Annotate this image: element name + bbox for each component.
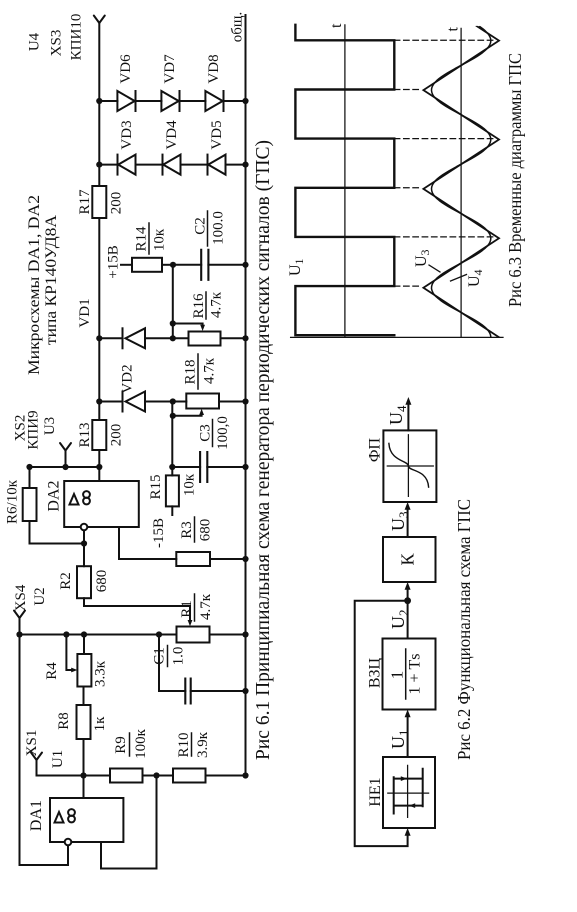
svg-text:Рис 6.1 Принципиальная схема г: Рис 6.1 Принципиальная схема генератора … xyxy=(253,140,274,760)
svg-text:R1: R1 xyxy=(179,600,195,618)
svg-text:VD7: VD7 xyxy=(162,54,178,84)
diode VD5 xyxy=(208,120,226,174)
node VD1 branch top junction xyxy=(96,335,102,341)
wire U4 output arrow xyxy=(407,402,409,431)
svg-text:C1: C1 xyxy=(152,647,168,665)
node R6 riser junction xyxy=(81,540,87,546)
resistor R14 xyxy=(132,223,168,272)
diode VD1 xyxy=(77,298,145,348)
op-amp DA2 inverting input circle xyxy=(81,524,88,531)
wire R8 to R4 xyxy=(83,687,85,706)
svg-text:R4: R4 xyxy=(44,662,60,680)
svg-text:U3: U3 xyxy=(388,512,411,532)
wire R14 to bus xyxy=(162,264,173,266)
svg-text:ФП: ФП xyxy=(367,437,384,462)
node VD6 branch top junction xyxy=(96,98,102,104)
node DA2 output junction xyxy=(96,464,102,470)
node VD3 branch top junction xyxy=(96,161,102,167)
node VD5 rail junction xyxy=(242,161,248,167)
resistor R3 xyxy=(176,517,213,566)
capacitor C3 xyxy=(172,416,245,482)
axis t U1 plot xyxy=(344,25,346,338)
resistor R6 xyxy=(5,479,37,524)
svg-text:XS1: XS1 xyxy=(24,730,40,757)
svg-text:R3: R3 xyxy=(179,521,195,539)
resistor R16 potentiometer xyxy=(189,291,225,345)
svg-text:VD8: VD8 xyxy=(206,54,222,83)
resistor R1 potentiometer xyxy=(177,593,215,642)
wire R9 top xyxy=(84,775,111,777)
svg-text:VD4: VD4 xyxy=(164,120,180,150)
svg-text:VD6: VD6 xyxy=(118,54,134,84)
hysteresis glyph axes xyxy=(388,765,429,817)
node R4 right end junction xyxy=(81,631,87,637)
resistor R13 xyxy=(77,420,125,450)
wire R15 supply stub xyxy=(171,506,173,515)
diode VD2 xyxy=(120,364,146,411)
wire R1 wiper to R2 xyxy=(84,598,190,622)
svg-text:10к: 10к xyxy=(182,473,198,496)
wire bias bus left segment xyxy=(171,402,173,476)
svg-text:R16: R16 xyxy=(191,293,207,319)
svg-text:4.7к: 4.7к xyxy=(202,357,218,384)
hysteresis glyph loop xyxy=(394,769,423,814)
leader U3 xyxy=(429,265,440,272)
arrow into ВЗЦ xyxy=(405,710,411,718)
svg-text:200: 200 xyxy=(109,424,125,447)
leader U4 xyxy=(451,275,467,282)
node R9 R10 divider junction xyxy=(153,772,159,778)
svg-text:R15: R15 xyxy=(148,474,164,499)
resistor R10 xyxy=(173,731,211,782)
svg-text:U4: U4 xyxy=(27,32,43,51)
node R10 rail junction xyxy=(242,772,248,778)
svg-text:VD1: VD1 xyxy=(77,298,93,327)
svg-text:R13: R13 xyxy=(77,422,93,447)
wire U3 arrow xyxy=(407,507,409,538)
svg-text:U2: U2 xyxy=(32,587,48,605)
svg-text:Микросхемы DA1, DA2: Микросхемы DA1, DA2 xyxy=(26,195,43,375)
wire DA2 output pin xyxy=(98,467,100,481)
svg-text:VD3: VD3 xyxy=(119,120,135,149)
connector XS3 xyxy=(94,16,105,24)
arrow feedback into НЕ1 xyxy=(405,828,411,836)
svg-text:R2: R2 xyxy=(58,572,74,590)
svg-text:100к: 100к xyxy=(133,728,149,759)
diode VD3 xyxy=(118,120,136,174)
node R4 wiper junction xyxy=(63,631,69,637)
wire DA1 output to R8 xyxy=(83,739,85,798)
svg-text:200: 200 xyxy=(109,192,125,215)
wire VD1 branch xyxy=(99,337,245,339)
svg-text:C3: C3 xyxy=(198,424,214,442)
svg-text:R17: R17 xyxy=(77,189,93,215)
arrow hysteresis up xyxy=(409,803,415,808)
function shaper glyph axes xyxy=(387,435,433,497)
diode VD6 xyxy=(117,54,135,111)
dashed line edge 2 xyxy=(394,89,421,91)
block ФП xyxy=(383,430,436,502)
node U2 junction xyxy=(16,631,22,637)
axis t U3 plot xyxy=(460,28,462,337)
svg-text:3.9к: 3.9к xyxy=(195,731,211,758)
svg-text:К: К xyxy=(398,553,418,566)
wire R10 bottom to common rail xyxy=(206,775,246,777)
svg-text:U1: U1 xyxy=(50,750,66,768)
wire R6 to XS2 node xyxy=(29,467,31,488)
wire R6 feedback riser xyxy=(30,521,85,544)
resistor R9 xyxy=(110,728,149,782)
node C3 rail junction xyxy=(242,464,248,470)
wire main U2 vertical bus xyxy=(20,634,177,636)
svg-text:4.7к: 4.7к xyxy=(198,593,214,620)
svg-text:R10: R10 xyxy=(176,732,192,757)
dashed line edge 4 xyxy=(394,187,421,189)
wire R2 to DA2 inverting input xyxy=(83,531,85,567)
block НЕ1 xyxy=(383,757,435,828)
node R16 wiper tap junction xyxy=(170,320,176,326)
node VD2 branch top junction xyxy=(96,398,102,404)
node R3 rail junction xyxy=(242,556,248,562)
dashed line edge 6 xyxy=(394,285,421,287)
node R16 rail junction xyxy=(242,335,248,341)
svg-text:КПИ9: КПИ9 xyxy=(26,410,42,449)
arrow into ФП xyxy=(405,502,411,510)
svg-text:R8: R8 xyxy=(56,712,72,730)
node bus R14 junction xyxy=(170,262,176,268)
svg-text:1: 1 xyxy=(388,671,407,680)
wire top rail middle section xyxy=(98,218,100,420)
svg-text:КПИ10: КПИ10 xyxy=(69,14,85,61)
node VD8 rail junction xyxy=(242,98,248,104)
resistor R2 xyxy=(58,566,110,598)
svg-text:t: t xyxy=(445,27,462,32)
arrow R4 wiper head xyxy=(71,668,77,673)
svg-text:VD2: VD2 xyxy=(120,364,136,393)
svg-text:R6/10к: R6/10к xyxy=(5,479,21,524)
wire XS1 stub xyxy=(37,760,84,776)
svg-text:3.3к: 3.3к xyxy=(93,660,109,687)
svg-text:ВЗЦ: ВЗЦ xyxy=(367,657,384,688)
svg-text:U1: U1 xyxy=(287,258,306,276)
wire feedback loop xyxy=(355,601,408,846)
wire U2 line from DA1 inverting input to XS4 node xyxy=(20,618,69,865)
wire R4 wiper tap xyxy=(66,635,73,671)
node C1 tap junction xyxy=(156,631,162,637)
node bus C3 junction xyxy=(169,464,175,470)
node R1 rail junction xyxy=(242,631,248,637)
wire R16 wiper xyxy=(173,324,203,328)
capacitor C2 xyxy=(173,211,246,280)
svg-text:U3: U3 xyxy=(42,417,58,435)
node C2 rail junction xyxy=(242,262,248,268)
node XS2 junction xyxy=(62,464,68,470)
svg-text:t: t xyxy=(328,23,345,28)
resistor R18 potentiometer xyxy=(183,354,220,409)
svg-text:100.0: 100.0 xyxy=(211,211,227,245)
wire U1 arrow xyxy=(407,714,409,757)
waveform U1 square xyxy=(295,25,394,335)
resistor R4 potentiometer xyxy=(44,654,109,687)
wire DA2 non-inverting input to R3 xyxy=(119,527,176,559)
wire R4 to main bus xyxy=(83,635,85,655)
dashed line edge 1 xyxy=(394,39,494,41)
wire top rail left section xyxy=(98,450,100,467)
diode VD8 xyxy=(205,54,223,111)
svg-text:R9: R9 xyxy=(113,736,129,754)
op-amp DA2 triangle infinity symbol xyxy=(70,494,79,505)
wire XS2 stub xyxy=(65,451,67,468)
svg-text:R18: R18 xyxy=(183,359,199,384)
svg-text:1.0: 1.0 xyxy=(171,647,187,666)
wire U3 output bus xyxy=(30,466,100,468)
svg-text:U1: U1 xyxy=(388,730,411,750)
svg-text:DA2: DA2 xyxy=(46,480,63,511)
svg-text:Рис 6.3 Временные диаграммы ГП: Рис 6.3 Временные диаграммы ГПС xyxy=(505,53,525,307)
node VD1 R16 branch bus junction xyxy=(170,335,176,341)
wire U2 arrow xyxy=(407,587,409,639)
dashed line edge 5 xyxy=(394,236,494,238)
connector XS2 xyxy=(60,443,71,451)
arrow R18 wiper head xyxy=(199,409,204,415)
svg-text:типа КР140УД8А: типа КР140УД8А xyxy=(43,215,60,345)
wire R9 to R10 xyxy=(143,775,174,777)
wire R1 bottom to common rail xyxy=(210,634,246,636)
block К xyxy=(383,537,436,582)
arrow hysteresis down xyxy=(401,776,407,781)
svg-text:10к: 10к xyxy=(152,228,168,251)
svg-text:DA1: DA1 xyxy=(28,800,45,831)
node VD2 R18 branch bus junction xyxy=(170,398,176,404)
svg-text:НЕ1: НЕ1 xyxy=(367,777,384,806)
node U1 junction xyxy=(80,772,86,778)
arrow output head xyxy=(405,397,411,405)
svg-text:1 + Тs: 1 + Тs xyxy=(407,653,424,694)
svg-text:U2: U2 xyxy=(388,610,411,630)
arrow into К xyxy=(405,582,411,590)
op-amp DA2 xyxy=(64,481,139,527)
connector XS4 xyxy=(14,611,25,619)
svg-text:общ.: общ. xyxy=(230,12,246,42)
resistor R15 xyxy=(148,473,198,506)
svg-text:680: 680 xyxy=(198,519,214,542)
node R18 wiper tap junction xyxy=(170,413,176,419)
resistor R17 xyxy=(77,186,125,218)
wire VD3 branch xyxy=(99,164,245,166)
connector XS1 xyxy=(31,753,42,761)
svg-text:4.7к: 4.7к xyxy=(209,291,225,318)
svg-text:680: 680 xyxy=(94,570,110,593)
wire R18 wiper xyxy=(173,413,202,416)
node C1 rail junction xyxy=(242,688,248,694)
svg-text:C2: C2 xyxy=(193,217,209,235)
wire common rail xyxy=(245,15,247,776)
wire bias bus right segment xyxy=(172,265,174,339)
arrow R16 wiper head xyxy=(200,325,205,331)
svg-text:U4: U4 xyxy=(386,405,409,425)
wire top rail right section to XS3 xyxy=(98,23,100,186)
wire VD6 branch xyxy=(99,100,245,102)
svg-text:R14: R14 xyxy=(134,226,150,252)
op-amp DA1 xyxy=(50,798,123,842)
svg-text:XS4: XS4 xyxy=(13,584,29,611)
arrow R1 wiper head xyxy=(188,620,193,626)
svg-text:Рис 6.2 Функциональная схема Г: Рис 6.2 Функциональная схема ГПС xyxy=(454,499,474,760)
capacitor C1 xyxy=(152,635,246,704)
node R18 rail junction xyxy=(242,398,248,404)
wire R3 to common rail xyxy=(210,558,246,560)
wire R14 supply stub xyxy=(121,264,132,266)
waveform U3 triangle xyxy=(423,26,499,387)
node U2 feedback junction xyxy=(404,597,411,604)
block ВЗЦ xyxy=(383,639,436,710)
dashed line edge 3 xyxy=(394,138,494,140)
svg-text:XS3: XS3 xyxy=(49,30,65,57)
resistor R8 xyxy=(56,705,108,739)
wire DA1 non-inverting feedback xyxy=(101,776,157,869)
svg-text:VD5: VD5 xyxy=(209,120,225,149)
function shaper S-curve xyxy=(389,443,429,487)
op-amp DA1 triangle infinity symbol xyxy=(55,812,64,823)
svg-text:1к: 1к xyxy=(92,716,108,732)
svg-text:+15В: +15В xyxy=(106,245,122,278)
svg-text:-15В: -15В xyxy=(151,518,167,548)
svg-text:U4: U4 xyxy=(466,269,485,287)
diode VD4 xyxy=(163,120,181,175)
diode VD7 xyxy=(161,54,179,111)
axis ordinate shared xyxy=(291,336,503,338)
svg-text:100,0: 100,0 xyxy=(215,416,231,450)
wire VD2 branch xyxy=(99,401,245,403)
op-amp DA1 inverting input circle xyxy=(65,839,72,846)
node R6 output junction xyxy=(26,464,32,470)
waveform U4 sine xyxy=(432,27,491,387)
